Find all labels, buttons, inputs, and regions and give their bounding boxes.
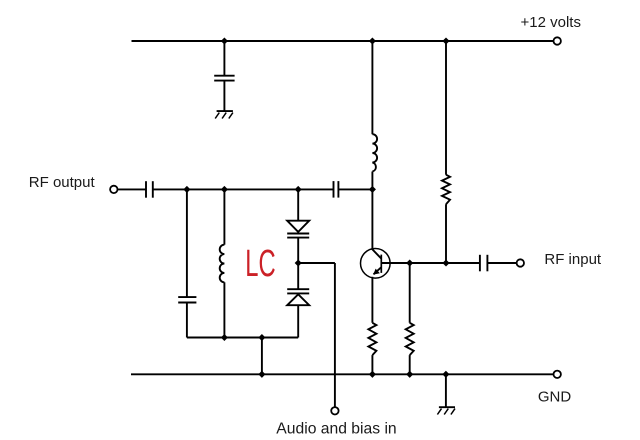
node: varactor mid junction bbox=[295, 259, 302, 266]
node: rail-choke junction bbox=[369, 37, 376, 44]
terminal: RF output bbox=[110, 186, 117, 193]
wire: bypass cap to ground bbox=[223, 81, 225, 111]
ground (bottom, chassis) bbox=[437, 407, 455, 414]
capacitor C-tank plates bbox=[178, 297, 196, 302]
terminal: GND bbox=[554, 371, 561, 378]
wire: emitter resistor to ground rail bbox=[371, 355, 373, 374]
svg-text:RF input: RF input bbox=[544, 251, 602, 268]
node: output rail / tank cap bbox=[183, 186, 190, 193]
diode D2 varactor (cathode up) bbox=[287, 289, 309, 305]
terminal: audio and bias in bbox=[331, 407, 338, 414]
svg-text:Audio and bias in: Audio and bias in bbox=[276, 421, 396, 438]
node: tank bottom / ground drop bbox=[258, 334, 265, 341]
wire: resistor to base node bbox=[445, 204, 447, 263]
resistor R-emitter bbox=[368, 323, 376, 355]
wire: R-base to ground rail bbox=[409, 355, 411, 374]
node: ground rail / tank drop bbox=[258, 371, 265, 378]
capacitor C-in coupling plates bbox=[480, 255, 488, 271]
svg-text:RF output: RF output bbox=[29, 174, 96, 191]
wire: tank bottom to ground rail bbox=[261, 338, 263, 375]
svg-text:GND: GND bbox=[538, 389, 572, 406]
node: ground rail / R-base bbox=[406, 371, 413, 378]
resistor R-base bbox=[406, 323, 414, 355]
node: rail-resistor junction bbox=[442, 37, 449, 44]
wire: tank cap branch down bbox=[186, 189, 188, 297]
wire: bypass cap drop from rail bbox=[223, 41, 225, 75]
inductor L-tank bbox=[220, 245, 225, 283]
resistor R-top (base feed) bbox=[442, 175, 450, 205]
capacitor C-out coupling plates bbox=[146, 181, 153, 198]
wire: varactor bias tap to audio line bbox=[298, 262, 335, 264]
wire: choke branch rail to coil bbox=[371, 41, 373, 134]
wire: tank inductor branch down bbox=[223, 189, 225, 244]
wire: output node rail bbox=[153, 188, 334, 190]
svg-text:+12 volts: +12 volts bbox=[521, 14, 581, 31]
wire: RF output terminal to cap bbox=[118, 188, 147, 190]
wire: input cap to RF input terminal bbox=[487, 262, 516, 264]
ground (top, chassis) bbox=[215, 111, 233, 118]
wire: base node down to R-base bbox=[409, 263, 411, 323]
wire: varactor branch down bbox=[297, 189, 299, 220]
transistor Q1 bbox=[361, 189, 391, 322]
node: output rail / tank inductor bbox=[221, 186, 228, 193]
node: output rail / varactor branch bbox=[295, 186, 302, 193]
wire: choke to collector node bbox=[371, 172, 373, 190]
node: ground rail / ground symbol bbox=[442, 371, 449, 378]
wire: tank cap to bottom of tank bbox=[186, 303, 188, 338]
node: collector node bbox=[369, 186, 376, 193]
wire: varactor mid node to D2 bbox=[297, 263, 299, 289]
wire: cap to collector node bbox=[338, 188, 372, 190]
node: base / R-top junction bbox=[442, 259, 449, 266]
wire: audio feed line down bbox=[334, 263, 336, 407]
wire: base rail to input cap bbox=[381, 262, 480, 264]
capacitor C-coupling (collector to tank) plates bbox=[334, 181, 339, 198]
node: tank bottom / inductor bbox=[221, 334, 228, 341]
wire: +12V top rail bbox=[132, 40, 554, 42]
wire: tank inductor to bottom of tank bbox=[223, 282, 225, 337]
wire: right resistor branch from rail bbox=[445, 41, 447, 175]
wire: rail to bottom ground symbol bbox=[445, 374, 447, 407]
node: base / R-base junction bbox=[406, 259, 413, 266]
svg-text:LC: LC bbox=[245, 241, 275, 284]
wire: tank bottom bus bbox=[187, 337, 298, 339]
terminal: +12V supply bbox=[554, 37, 561, 44]
wire: varactor mid node bbox=[297, 238, 299, 263]
node: rail-bypass junction bbox=[221, 37, 228, 44]
inductor L-choke (RF choke) bbox=[372, 134, 377, 171]
node: ground rail / emitter resistor bbox=[369, 371, 376, 378]
wire: ground bottom rail bbox=[131, 373, 554, 375]
terminal: RF input bbox=[517, 259, 524, 266]
diode D1 varactor (cathode down) bbox=[287, 221, 309, 238]
capacitor C-bypass plates bbox=[214, 76, 234, 81]
wire: D2 to bottom of tank bbox=[297, 305, 299, 337]
